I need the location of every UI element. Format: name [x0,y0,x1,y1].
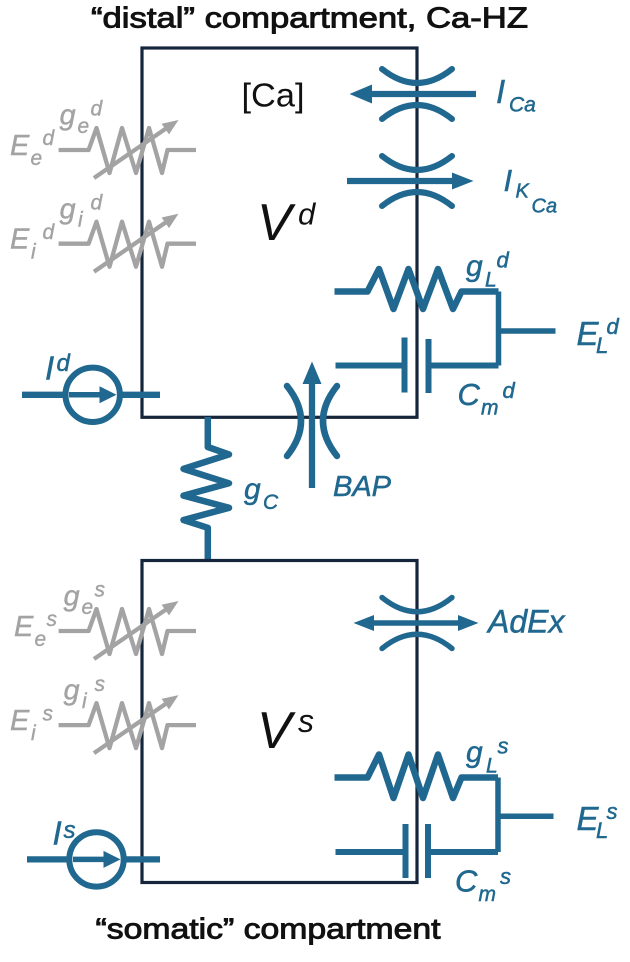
svg-text:d: d [43,221,56,244]
svg-text:E: E [10,705,30,737]
svg-text:s: s [47,608,58,631]
synapse g_i^d (inhibitory, grey variable resistor) [59,222,196,272]
label E_L^d [577,314,620,358]
arrow for AdEx (double headed) [354,615,479,631]
capacitor C_m^d (membrane capacitance, crosses right edge) [336,338,499,394]
svg-text:s: s [43,702,54,725]
svg-text:e: e [78,115,90,138]
svg-text:m: m [481,396,499,419]
label g_i^d [60,191,104,231]
label E_i^d [10,221,56,264]
svg-text:E: E [10,130,30,162]
current source I^s [27,832,160,886]
svg-text:[Ca]: [Ca] [242,77,305,114]
svg-text:“somatic” compartment: “somatic” compartment [96,914,441,946]
label E_e^s [14,608,58,651]
capacitor C_m^s (membrane capacitance, crosses right edge) [336,824,499,878]
svg-text:m: m [479,883,497,906]
svg-text:L: L [485,269,497,292]
svg-text:AdEx: AdEx [486,603,565,639]
label E_L^s [577,799,618,843]
svg-text:I: I [504,163,513,198]
label E_e^d [10,127,56,170]
current source I^d [22,368,160,422]
svg-text:d: d [497,248,510,273]
label g_L^s [466,734,509,778]
wire: right ladder vertical (g_L^d to C_m^d) [496,292,502,366]
label E_i^s [10,702,54,745]
svg-text:e: e [35,628,47,651]
svg-text:C: C [458,377,481,412]
svg-text:s: s [64,817,76,844]
wire to E_L^d terminal [499,328,556,334]
svg-text:C: C [263,491,279,514]
svg-text:s: s [500,864,511,889]
synapse g_e^d (excitatory, grey variable resistor) [59,128,196,178]
svg-text:g: g [466,736,483,769]
svg-text:BAP: BAP [333,471,392,503]
arrow for I_Ca (pointing left into box) [350,85,477,104]
svg-text:s: s [298,703,314,739]
arrow for BAP (pointing up into box) [303,362,322,489]
label g_L^d [466,248,510,292]
svg-text:d: d [607,314,620,339]
svg-text:s: s [607,799,618,824]
resistor g_C (coupling between compartments) [184,417,230,561]
svg-text:s: s [498,734,509,759]
svg-text:d: d [91,191,104,214]
synapse g_e^s (excitatory, grey variable resistor) [59,609,196,659]
svg-text:I: I [45,349,54,386]
svg-text:Ca: Ca [532,196,558,218]
somatic compartment box V^s [142,561,417,883]
resistor g_L^d (leak conductance, crosses right edge) [335,269,499,309]
svg-text:e: e [82,596,94,619]
synapse g_i^s (inhibitory, grey variable resistor) [59,703,196,753]
svg-text:d: d [43,127,56,150]
svg-text:Ca: Ca [509,94,536,117]
wire: right ladder vertical (g_L^s to C_m^s) [495,778,501,853]
arrow for I_KCa (pointing right out of box) [347,173,474,190]
label I_KCa [504,163,558,218]
svg-text:d: d [298,196,317,231]
svg-text:d: d [57,350,71,377]
distal compartment box V^d [142,48,417,417]
svg-text:g: g [466,250,483,283]
svg-text:d: d [91,98,104,121]
node label V^d [257,194,317,252]
svg-text:“distal” compartment, Ca-HZ: “distal” compartment, Ca-HZ [91,3,528,35]
svg-text:L: L [486,755,498,778]
node label V^s [257,702,314,760]
label g_C [244,473,279,514]
ion channel I_KCa (on right edge of distal box) [382,156,452,206]
svg-text:I: I [496,73,505,110]
resistor g_L^s (leak conductance, crosses right edge) [335,755,499,799]
svg-text:V: V [257,702,296,760]
svg-text:g: g [60,100,76,132]
svg-text:g: g [64,581,80,613]
svg-text:d: d [503,378,516,403]
svg-text:E: E [10,224,30,256]
svg-text:s: s [95,579,106,602]
ion channel I_Ca (on right edge of distal box) [382,69,452,119]
label I^d [45,349,71,386]
label I^s [53,814,76,851]
label g_e^d [60,98,104,138]
svg-text:V: V [257,194,296,252]
svg-text:g: g [64,675,80,707]
svg-text:s: s [95,673,106,696]
label C_m^s [455,864,511,906]
wire to E_L^s terminal [498,813,554,819]
svg-text:C: C [455,864,478,899]
svg-text:E: E [14,611,34,643]
label g_e^s [64,579,106,619]
svg-text:g: g [244,473,261,506]
svg-text:g: g [60,193,76,225]
label g_i^s [64,673,106,713]
svg-text:e: e [31,147,43,170]
label C_m^d [458,377,516,420]
svg-text:K: K [516,181,531,203]
label I_Ca [496,73,536,117]
svg-text:I: I [53,814,62,851]
ion channel BAP (on bottom edge of distal box) [287,386,337,456]
ion channel AdEx (on right edge of somatic box) [382,598,452,649]
